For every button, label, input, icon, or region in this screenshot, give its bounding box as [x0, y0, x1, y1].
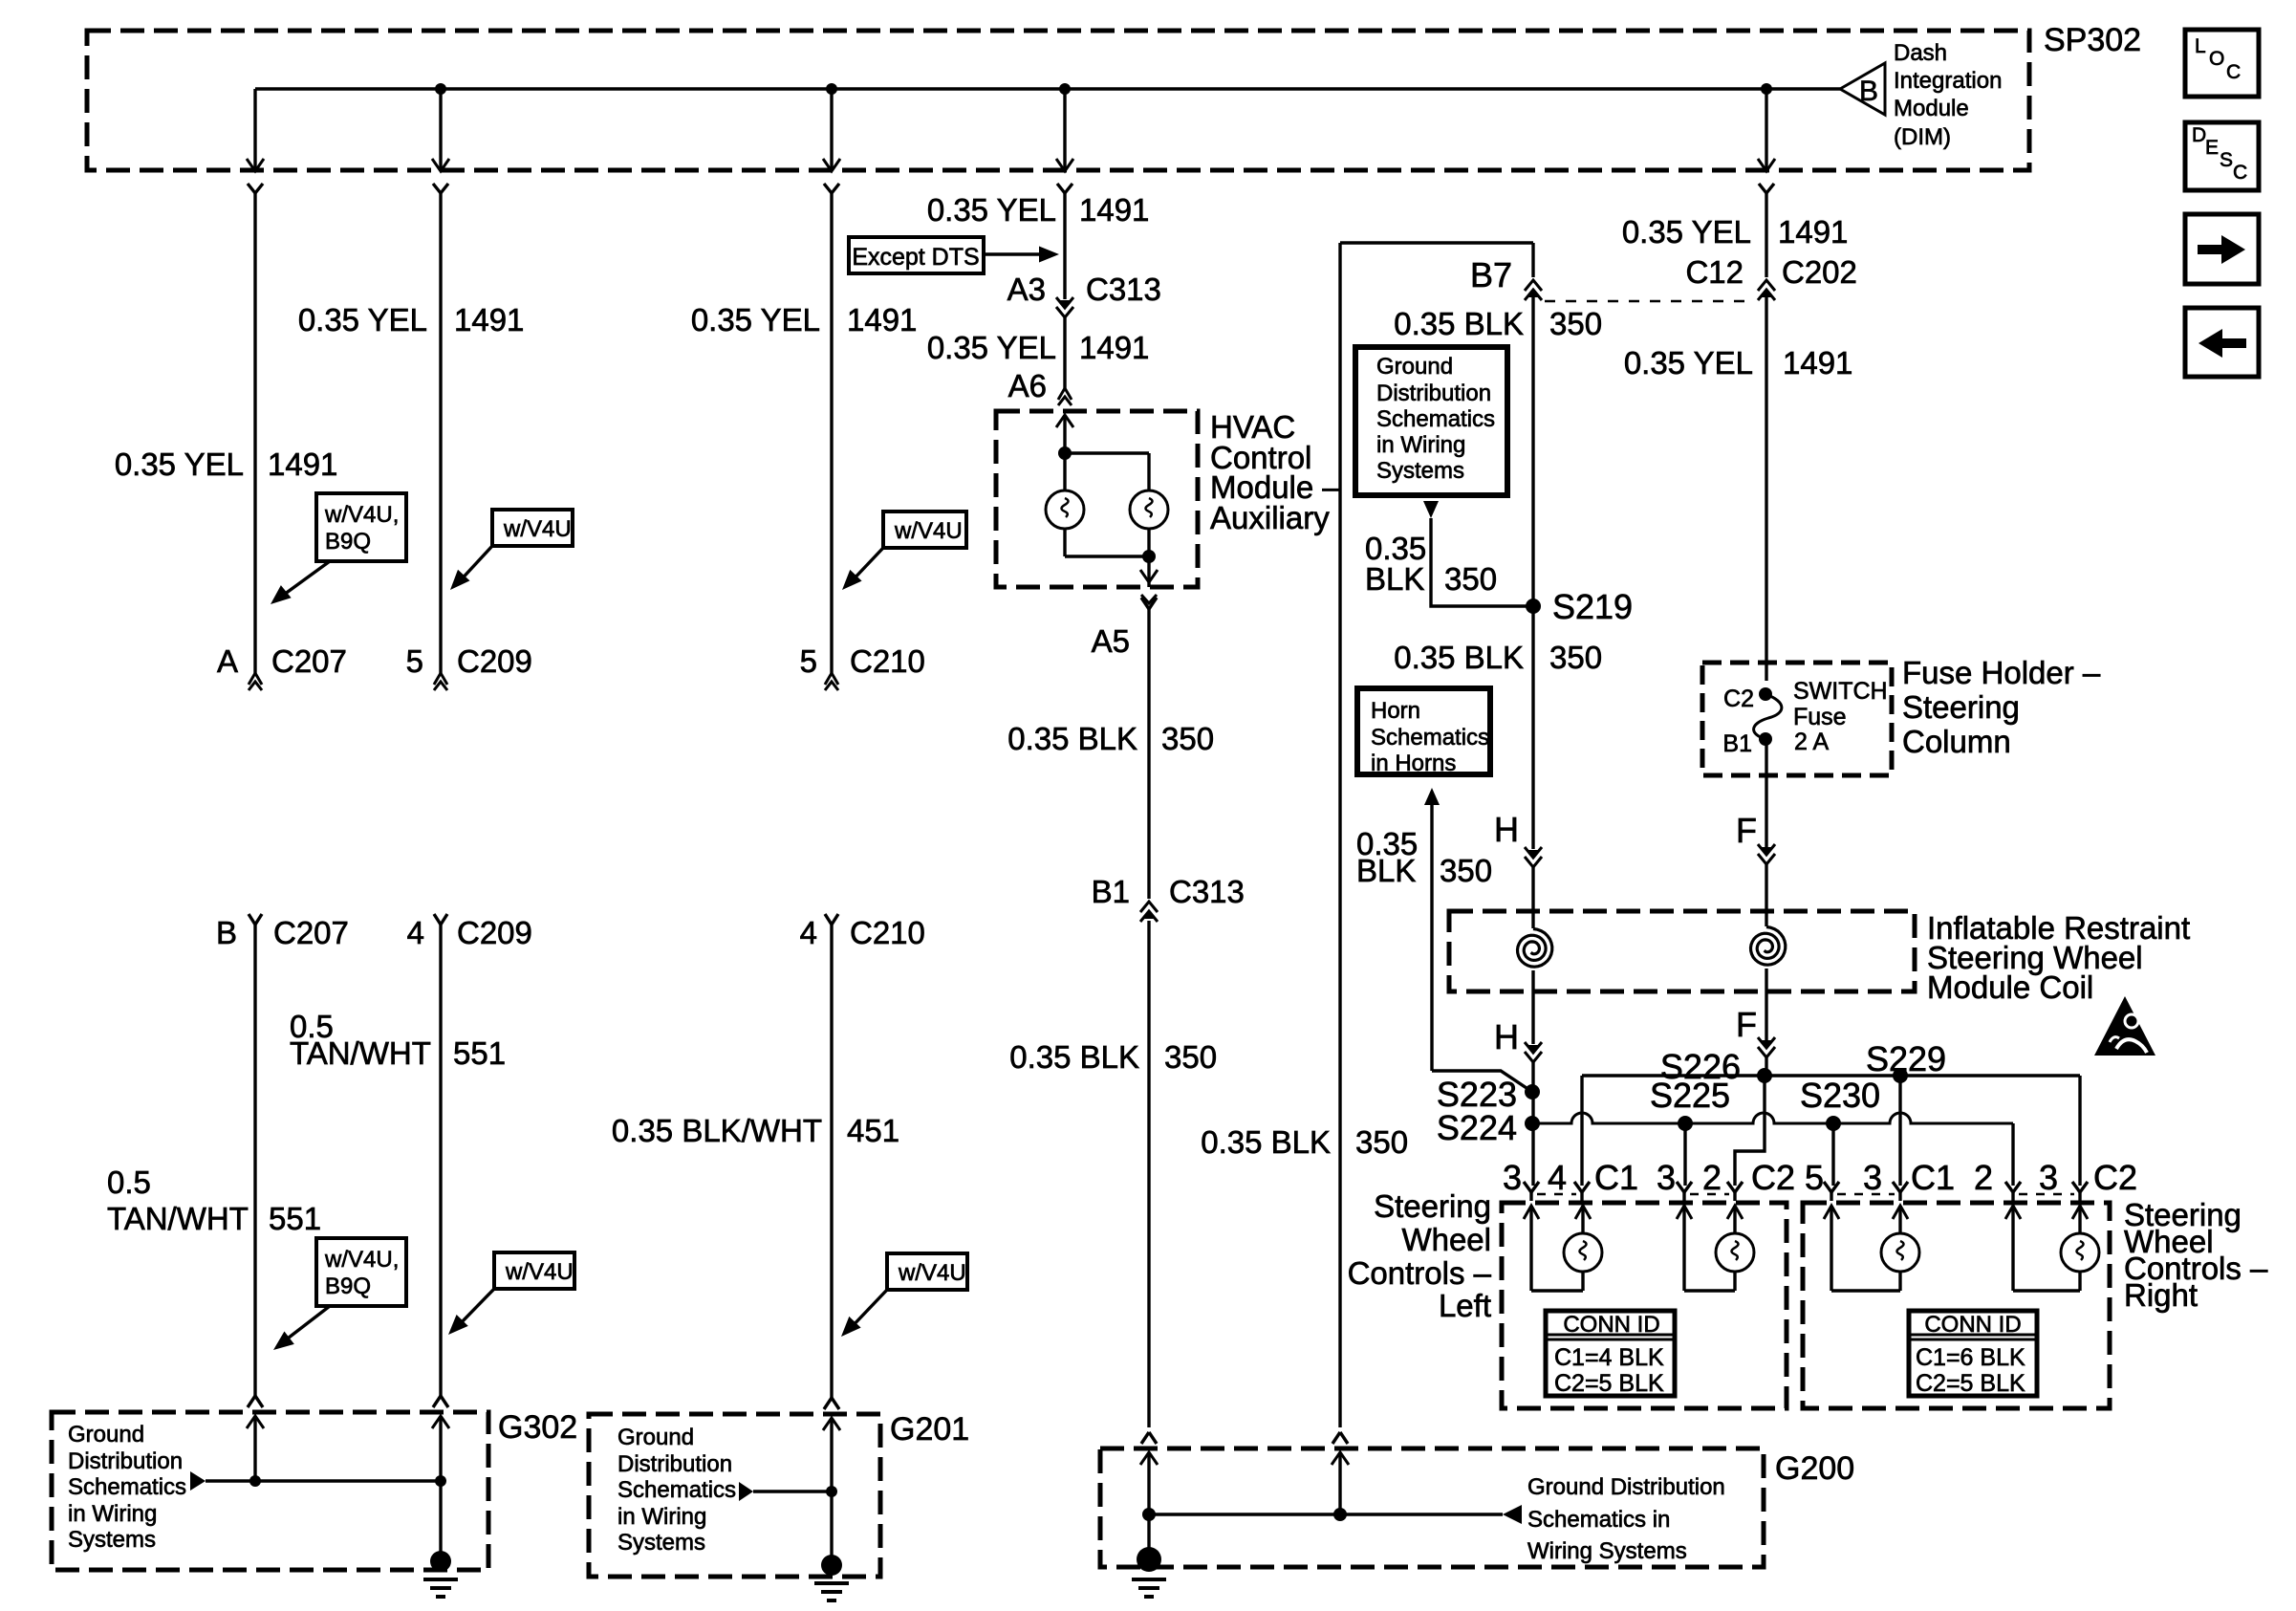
HVAC exit wire [1140, 556, 1158, 587]
svg-text:Ground: Ground [617, 1425, 694, 1450]
svg-text:0.35 BLK: 0.35 BLK [1394, 640, 1524, 675]
pin labels 3 4 C1 [1503, 1158, 1638, 1197]
svg-text:Schematics in: Schematics in [1527, 1507, 1670, 1533]
switch unit right C2 (pins 2-3) [2005, 1206, 2099, 1291]
svg-text:Module Coil: Module Coil [1927, 969, 2093, 1005]
wire W4 A5 to B1 [1147, 609, 1150, 899]
connector forks at steering wheel controls [1524, 1182, 2088, 1201]
Inflatable Restraint Steering Wheel Module Coil dashed box [1449, 911, 1915, 991]
connector C210 pin 5 fork [825, 673, 838, 690]
connector H lower [1525, 1042, 1542, 1062]
W4 label 0.35 BLK 350 (lower) [1009, 1039, 1217, 1075]
svg-text:w/V4U: w/V4U [898, 1260, 966, 1286]
label 0.35 BLK 350 (below S219) [1394, 640, 1602, 675]
junction W1 on G302 bus [249, 1475, 261, 1487]
svg-text:C313: C313 [1086, 272, 1161, 307]
svg-text:G302: G302 [498, 1409, 577, 1446]
Except DTS box [849, 237, 984, 273]
svg-text:350: 350 [1440, 853, 1492, 888]
junction W4 on G200 bus [1142, 1508, 1156, 1521]
label 4 C209 [407, 915, 532, 950]
Steering Wheel Controls Right dashed box [1803, 1203, 2110, 1408]
svg-text:0.35 YEL: 0.35 YEL [927, 330, 1056, 365]
svg-text:Distribution: Distribution [617, 1451, 732, 1477]
forward arrow box [2185, 214, 2259, 284]
label B1 (fuse) [1722, 730, 1752, 757]
label A3 C313 [1007, 272, 1161, 307]
wire W3 B-row [830, 925, 833, 1398]
svg-text:in Horns: in Horns [1371, 751, 1456, 776]
wire S229 drop to pin 3 [1898, 1076, 1901, 1186]
W4 label 0.35 BLK 350 [1007, 721, 1214, 756]
wire W4 to C313 [1063, 193, 1066, 299]
svg-text:Column: Column [1902, 724, 2011, 759]
wire fuse to F [1765, 739, 1767, 849]
pin labels 5 3 C1 (right) [1805, 1158, 1955, 1197]
W3 label 0.35 BLK/WHT 451 [612, 1113, 899, 1148]
svg-text:350: 350 [1549, 306, 1602, 341]
svg-text:C209: C209 [457, 915, 532, 950]
svg-text:0.35 YEL: 0.35 YEL [691, 302, 820, 337]
svg-text:Horn: Horn [1371, 698, 1420, 724]
junction on bus at C210 wire [826, 83, 837, 95]
wire W2 drop from bus [439, 89, 442, 171]
svg-text:0.35 BLK: 0.35 BLK [1009, 1039, 1139, 1075]
wire C202 drop from bus [1765, 89, 1767, 171]
svg-text:G201: G201 [890, 1411, 969, 1448]
svg-text:A6: A6 [1008, 368, 1047, 403]
svg-text:S225: S225 [1650, 1076, 1730, 1115]
svg-text:C2=5 BLK: C2=5 BLK [1916, 1370, 2025, 1397]
junction on bus at C202 wire [1761, 83, 1772, 95]
svg-text:B1: B1 [1722, 730, 1752, 757]
wire F jog to pin 2 [1735, 1076, 1765, 1186]
pin labels 2 3 C2 (right) [1974, 1158, 2137, 1197]
svg-text:in Wiring: in Wiring [617, 1504, 706, 1530]
wire S-wire inside G200 [1338, 1452, 1341, 1514]
svg-text:C1: C1 [1594, 1158, 1638, 1197]
pin labels 3 2 C2 [1657, 1158, 1795, 1197]
svg-text:TAN/WHT: TAN/WHT [107, 1201, 249, 1236]
label S226 [1660, 1047, 1741, 1086]
label S224 [1437, 1108, 1517, 1147]
horn reference arrow [1424, 788, 1440, 1071]
w/V4U box (W3 B row) [887, 1253, 967, 1290]
svg-text:0.35 YEL: 0.35 YEL [927, 192, 1056, 228]
svg-text:C2: C2 [2093, 1158, 2137, 1197]
label G200 [1775, 1450, 1854, 1487]
Fuse Holder dashed box [1702, 663, 1892, 775]
switch unit left C1 (pins 3-4) [1524, 1206, 1602, 1291]
HVAC internal top wire [1065, 451, 1149, 454]
coil left (inflatable restraint) [1518, 929, 1552, 968]
connector A6 fork at HVAC [1058, 388, 1072, 405]
svg-text:3: 3 [1503, 1158, 1522, 1197]
wire W1 to C207 [253, 193, 256, 673]
svg-text:F: F [1736, 1005, 1757, 1044]
dashed connector line B7-C202 [1545, 300, 1753, 303]
Steering Wheel Controls Left dashed box [1502, 1203, 1787, 1408]
SRS caution triangle [2094, 996, 2155, 1056]
G200 dashed box [1100, 1448, 1764, 1567]
svg-text:2: 2 [1702, 1158, 1722, 1197]
svg-text:1491: 1491 [1079, 330, 1149, 365]
fuse terminal C2 [1759, 687, 1772, 701]
w/V4U box (W2 A row) [492, 510, 573, 546]
junction S230 [1826, 1116, 1841, 1131]
svg-text:5: 5 [1805, 1158, 1824, 1197]
W1 entry into G302 [247, 1396, 264, 1428]
switch unit left C2 (pins 3-2) [1677, 1206, 1754, 1291]
wire W4 B1 to G200 [1147, 921, 1150, 1427]
label A6 [1008, 368, 1047, 403]
label Fuse Holder - Steering Column [1902, 655, 2101, 759]
wire B7 stub [1531, 243, 1534, 277]
HVAC Control Module dashed box [996, 411, 1198, 587]
svg-text:3: 3 [2039, 1158, 2058, 1197]
svg-text:L: L [2195, 35, 2206, 57]
connector triangle B (DIM) [1840, 63, 1885, 115]
svg-text:C1=4 BLK: C1=4 BLK [1554, 1344, 1664, 1371]
junction S-wire on G200 bus [1333, 1508, 1347, 1521]
junction S224 [1525, 1116, 1540, 1131]
svg-text:C: C [2226, 61, 2241, 83]
svg-text:H: H [1494, 810, 1519, 849]
svg-text:Distribution: Distribution [68, 1448, 183, 1474]
G201 dashed box [589, 1414, 880, 1577]
W1 exit arrow at DIM box edge [247, 159, 264, 193]
svg-text:C2: C2 [1751, 1158, 1795, 1197]
W4 label 0.35 YEL 1491 (below C313) [927, 330, 1150, 365]
svg-text:Schematics: Schematics [1376, 406, 1495, 432]
svg-text:Distribution: Distribution [1376, 381, 1491, 406]
wire W1 B-row [253, 925, 256, 1396]
label Inflatable Restraint Steering Wheel Module Coil [1927, 910, 2190, 1005]
label F (upper) [1736, 811, 1757, 850]
svg-text:SWITCH: SWITCH [1793, 678, 1888, 705]
G302 internal bus wire [206, 1479, 441, 1482]
svg-text:4: 4 [407, 915, 424, 950]
svg-text:350: 350 [1355, 1124, 1408, 1160]
svg-text:C: C [2233, 162, 2247, 184]
svg-text:Ground: Ground [68, 1422, 144, 1448]
svg-text:0.35 BLK: 0.35 BLK [1007, 721, 1137, 756]
label S219 [1552, 587, 1633, 626]
G201 internal bus wire [753, 1490, 832, 1492]
label 5 C209 [406, 643, 532, 679]
CONN ID box right [1909, 1311, 2037, 1397]
G201 reference arrow [739, 1482, 753, 1501]
W3 entry into G201 [823, 1398, 840, 1430]
wire W2 to C209 [439, 193, 442, 673]
fuse terminal B1 [1759, 732, 1772, 746]
svg-text:CONN ID: CONN ID [1563, 1312, 1659, 1338]
G200 reference text [1527, 1474, 1725, 1564]
label H (lower) [1494, 1017, 1519, 1056]
svg-text:2 A: 2 A [1794, 729, 1829, 755]
C202 label 0.35 YEL 1491 [1622, 214, 1849, 250]
svg-text:0.35 YEL: 0.35 YEL [298, 302, 427, 337]
svg-text:S230: S230 [1800, 1076, 1880, 1115]
label HVAC Control Module - Auxiliary [1210, 409, 1340, 535]
ground symbol G200 [1132, 1547, 1166, 1597]
svg-text:0.35 YEL: 0.35 YEL [115, 446, 244, 482]
W2 label 0.5 TAN/WHT 551 [290, 1009, 506, 1071]
wire pin4 drop [1580, 1076, 1583, 1186]
wire W1 inside G302 [253, 1416, 256, 1481]
svg-text:C207: C207 [273, 915, 349, 950]
wire S230 drop to pin 5 [1831, 1123, 1834, 1186]
connector H upper [1525, 847, 1542, 867]
svg-text:B9Q: B9Q [325, 1274, 371, 1299]
svg-text:0.35 YEL: 0.35 YEL [1624, 345, 1753, 381]
svg-text:C202: C202 [1782, 254, 1857, 290]
label SP302 [2044, 22, 2141, 58]
label Dash Integration Module (DIM) [1894, 40, 2002, 150]
svg-text:S: S [2220, 149, 2233, 171]
CONN ID box left [1546, 1311, 1675, 1397]
svg-text:C1: C1 [1911, 1158, 1955, 1197]
junction S223 [1525, 1084, 1540, 1099]
svg-text:B: B [216, 915, 237, 950]
wire reference to S219 [1431, 518, 1532, 606]
svg-text:0.35 BLK: 0.35 BLK [1394, 306, 1524, 341]
svg-text:D: D [2192, 124, 2206, 146]
upper S bus wire [1582, 1074, 2080, 1077]
svg-text:S224: S224 [1437, 1108, 1517, 1147]
S-wire entry into G200 [1332, 1432, 1349, 1465]
connector C207 pin B fork [249, 914, 262, 925]
connector F lower [1758, 1037, 1775, 1057]
svg-text:5: 5 [800, 643, 817, 679]
svg-text:TAN/WHT: TAN/WHT [290, 1035, 431, 1071]
wire horn branch to S223 [1432, 1071, 1532, 1092]
HVAC internal wires to bottom [1065, 453, 1149, 556]
bus wire inside DIM [255, 87, 1840, 90]
connector C313 pin B1 [1140, 902, 1158, 922]
W2 entry into G302 [432, 1396, 449, 1428]
svg-text:5: 5 [406, 643, 423, 679]
wire S225 drop to pin 3 [1683, 1123, 1686, 1186]
label B C207 [216, 915, 349, 950]
svg-text:w/V4U: w/V4U [505, 1259, 574, 1285]
svg-text:S229: S229 [1866, 1039, 1946, 1078]
svg-text:F: F [1736, 811, 1757, 850]
wire F below coil [1765, 969, 1767, 1040]
svg-text:SP302: SP302 [2044, 22, 2141, 58]
label SWITCH Fuse 2 A [1793, 678, 1888, 755]
W3 exit arrow at DIM box edge [823, 159, 840, 193]
junction W3 on G201 bus [826, 1486, 837, 1497]
connector F upper [1758, 844, 1775, 864]
svg-text:Ground Distribution: Ground Distribution [1527, 1474, 1725, 1500]
connector C209 pin 5 fork [434, 673, 447, 690]
W2 exit arrow at DIM box edge [432, 159, 449, 193]
svg-text:w/V4U,: w/V4U, [324, 1247, 399, 1273]
wire C202 to fuse holder [1765, 291, 1767, 681]
S-wire label 0.35 BLK 350 [1201, 1124, 1408, 1160]
svg-text:Steering: Steering [1374, 1188, 1491, 1224]
wire W3 inside G201 to ground [830, 1418, 833, 1557]
junction S229 [1893, 1068, 1908, 1083]
Horn Schematics reference box [1357, 688, 1490, 776]
coil right (inflatable restraint) [1751, 927, 1786, 966]
connector C202 pin B7 [1525, 280, 1542, 300]
svg-text:Module: Module [1894, 96, 1969, 121]
svg-text:A5: A5 [1092, 623, 1130, 659]
svg-text:2: 2 [1974, 1158, 1993, 1197]
label 0.35 BLK 350 (horn branch) [1356, 826, 1492, 888]
svg-text:B9Q: B9Q [325, 529, 371, 555]
junction S226 [1757, 1068, 1772, 1083]
DESC box [2185, 122, 2259, 190]
svg-text:Left: Left [1439, 1288, 1491, 1323]
svg-text:B1: B1 [1092, 874, 1130, 909]
W1 label 0.35 YEL 1491 [115, 446, 338, 482]
svg-text:Fuse: Fuse [1793, 704, 1847, 730]
svg-text:1491: 1491 [1783, 345, 1852, 381]
svg-text:Schematics: Schematics [68, 1474, 186, 1500]
W4 entry into G200 [1140, 1432, 1158, 1465]
label H (upper) [1494, 810, 1519, 849]
wire branch from B7 to G200 [1340, 243, 1533, 1427]
svg-text:A: A [217, 643, 238, 679]
label G201 [890, 1411, 969, 1448]
svg-text:Ground: Ground [1376, 354, 1453, 380]
W4 label 0.35 YEL 1491 [927, 192, 1150, 228]
svg-text:551: 551 [269, 1201, 321, 1236]
G200 reference arrow [1503, 1505, 1522, 1524]
svg-text:O: O [2209, 48, 2224, 70]
B7 label 0.35 BLK 350 [1394, 306, 1602, 341]
svg-text:in Wiring: in Wiring [1376, 432, 1465, 458]
svg-text:w/V4U,: w/V4U, [324, 502, 399, 528]
junction S219 [1526, 599, 1541, 614]
svg-text:BLK: BLK [1356, 853, 1416, 888]
svg-text:4: 4 [800, 915, 817, 950]
svg-text:0.35 BLK: 0.35 BLK [1201, 1124, 1331, 1160]
label 4 C210 [800, 915, 925, 950]
svg-text:Fuse Holder –: Fuse Holder – [1902, 655, 2101, 690]
label S230 [1800, 1076, 1880, 1115]
svg-text:Steering: Steering [1902, 689, 2020, 725]
svg-text:Schematics: Schematics [617, 1477, 736, 1503]
label S229 [1866, 1039, 1946, 1078]
svg-text:Systems: Systems [617, 1530, 705, 1556]
svg-text:S219: S219 [1552, 587, 1633, 626]
svg-text:Dash: Dash [1894, 40, 1947, 66]
wire W2 B-row [439, 925, 442, 1396]
connector C209 pin 4 fork [434, 914, 447, 925]
svg-text:4: 4 [1548, 1158, 1567, 1197]
w/V4U box (W2 B row) [494, 1252, 574, 1289]
svg-text:551: 551 [453, 1035, 506, 1071]
w/V4U box (W3 A row) [883, 512, 966, 548]
arrow from w/V4U box to W1 [271, 561, 330, 604]
LOC box [2185, 30, 2259, 97]
Dash Integration Module (DIM) dashed box SP302 [87, 31, 2029, 170]
label S223 [1437, 1075, 1517, 1114]
connector C313 pin A3 [1056, 297, 1073, 317]
G201 reference text [617, 1425, 736, 1556]
W1 label 0.5 TAN/WHT 551 [107, 1165, 321, 1236]
svg-text:1491: 1491 [454, 302, 524, 337]
svg-text:350: 350 [1444, 561, 1497, 597]
wire F through coil [1765, 864, 1767, 926]
HVAC lamp circle right [1130, 490, 1168, 529]
svg-text:Integration: Integration [1894, 68, 2002, 94]
wire H through coil [1531, 867, 1534, 928]
svg-text:C209: C209 [457, 643, 532, 679]
svg-text:C1=6 BLK: C1=6 BLK [1916, 1344, 2025, 1371]
wire H to S-network [1531, 1062, 1534, 1186]
svg-text:Systems: Systems [68, 1527, 156, 1553]
svg-text:in Wiring: in Wiring [68, 1501, 157, 1527]
svg-text:Controls –: Controls – [1348, 1255, 1492, 1291]
connector A5 fork below HVAC [1141, 595, 1157, 609]
W4 exit arrow at DIM box edge [1056, 159, 1073, 193]
W3 label 0.35 YEL 1491 [691, 302, 918, 337]
svg-text:350: 350 [1549, 640, 1602, 675]
reference arrow below box [1423, 501, 1439, 518]
svg-text:G200: G200 [1775, 1450, 1854, 1487]
svg-text:1491: 1491 [1778, 214, 1848, 250]
label C12 C202 [1685, 254, 1856, 290]
fuse element SWITCH Fuse 2A [1754, 694, 1782, 739]
label B1 C313 [1092, 874, 1245, 909]
switch unit right C1 (pins 5-3) [1824, 1206, 1919, 1291]
svg-text:Systems: Systems [1376, 458, 1464, 484]
junction on bus at C313 wire [1059, 83, 1071, 95]
ground symbol G201 [814, 1555, 849, 1600]
svg-text:Wiring Systems: Wiring Systems [1527, 1538, 1687, 1564]
label S225 [1650, 1076, 1730, 1115]
svg-text:Schematics: Schematics [1371, 725, 1489, 751]
svg-text:C210: C210 [850, 643, 925, 679]
svg-text:0.5: 0.5 [107, 1165, 151, 1200]
wire W4 inside G200 to ground [1147, 1452, 1150, 1551]
svg-text:A3: A3 [1007, 272, 1046, 307]
wire W2 inside G302 to ground [439, 1416, 442, 1553]
svg-text:0.35 YEL: 0.35 YEL [1622, 214, 1751, 250]
label 5 C210 [800, 643, 925, 679]
label Steering Wheel Controls - Left [1348, 1188, 1492, 1323]
W2 label 0.35 YEL 1491 [298, 302, 525, 337]
svg-text:B7: B7 [1470, 255, 1512, 294]
Except DTS arrow to W4 [984, 247, 1059, 263]
label C2 [1723, 686, 1754, 712]
wire W3 drop from bus [830, 89, 833, 171]
svg-text:C313: C313 [1169, 874, 1245, 909]
svg-text:BLK: BLK [1365, 561, 1424, 597]
svg-text:B: B [1859, 76, 1878, 107]
svg-text:451: 451 [847, 1113, 899, 1148]
arrow from w/V4U to W2 [450, 546, 492, 590]
wire F to S226 [1765, 1057, 1767, 1076]
svg-text:350: 350 [1164, 1039, 1217, 1075]
G200 internal bus wire [1149, 1513, 1503, 1515]
svg-text:E: E [2205, 137, 2219, 159]
arrow from w/V4U to W3 [842, 548, 883, 590]
ground symbol G302 [423, 1551, 458, 1597]
wire lower bus right drop to pin 2 [2011, 1123, 2014, 1186]
svg-text:1491: 1491 [268, 446, 337, 482]
label G302 [498, 1409, 577, 1446]
junction inside HVAC [1058, 446, 1072, 460]
svg-text:H: H [1494, 1017, 1519, 1056]
svg-text:w/V4U: w/V4U [894, 518, 963, 544]
svg-text:w/V4U: w/V4U [503, 516, 572, 542]
